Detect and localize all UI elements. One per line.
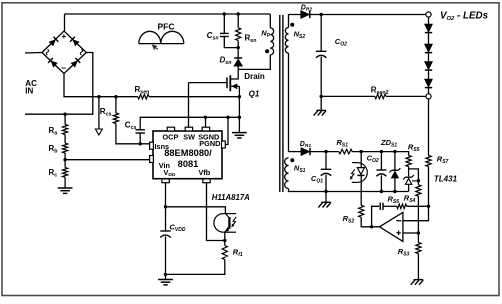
- transistor Q1 channel bar: [229, 75, 231, 91]
- wire RS6 right: [407, 205, 429, 207]
- resistor Rb: [63, 143, 68, 153]
- wire Ccs top to rail: [140, 117, 239, 130]
- node Rcs tap: [114, 95, 117, 98]
- transformer core: [279, 15, 281, 192]
- node source-ground: [238, 116, 241, 119]
- resistor RS6: [397, 204, 407, 209]
- capacitor Ccs: [135, 129, 145, 131]
- resistor Rsen2: [375, 94, 386, 99]
- capacitor CVDD: [160, 230, 171, 232]
- arrow down symbol: [95, 129, 102, 135]
- wire arrow stub: [98, 97, 100, 129]
- wire opto anode: [360, 152, 362, 168]
- resistor Ra: [63, 125, 68, 135]
- wire Rcs bottom: [116, 124, 149, 144]
- optocoupler U2 LED: [357, 168, 364, 175]
- wire VDD down: [165, 183, 167, 231]
- resistor RS4: [416, 185, 421, 196]
- bridge rectifier diamond: [42, 31, 86, 74]
- node Co1 bottom: [324, 190, 327, 193]
- optocoupler U2 emitter arrow: [225, 227, 230, 232]
- wire LED string: [428, 17, 430, 24]
- node opamp out: [370, 225, 373, 228]
- phase dot Ns2: [290, 23, 294, 27]
- node opto anode: [360, 150, 363, 153]
- wire AC line 1: [25, 52, 42, 55]
- wire Co2b top: [380, 152, 382, 170]
- svg-text:+: +: [61, 31, 66, 41]
- wire collector line: [166, 207, 226, 214]
- node noninv: [417, 231, 420, 234]
- node Co2b top: [380, 150, 383, 153]
- optocoupler U2 transistor envelope: [214, 214, 223, 233]
- wire Np top: [269, 14, 271, 28]
- IC pin PGND: [222, 141, 226, 148]
- wire Rcs top: [115, 97, 117, 113]
- wire bridge bottom drop: [64, 74, 138, 97]
- capacitor Co1: [321, 168, 332, 170]
- resistor Rsen: [138, 94, 149, 99]
- wire DR2 to terminal: [310, 14, 426, 16]
- resistor RS5: [406, 156, 411, 167]
- svg-text:PGND: PGND: [199, 139, 220, 148]
- diode DR1: [301, 148, 309, 155]
- phase dot Np: [265, 49, 269, 53]
- IC pin SW: [185, 127, 192, 131]
- IC U1 88EM8080 body: [153, 131, 222, 179]
- wire Co1 ground stub: [325, 192, 327, 203]
- resistor Rfl: [222, 246, 227, 260]
- wire Ns2 to Ns1: [288, 53, 290, 152]
- resistor RS7: [426, 156, 431, 167]
- bridge diode lower-right: [71, 60, 78, 67]
- wire Vin line: [65, 159, 149, 161]
- svg-text:Vfb: Vfb: [199, 168, 211, 177]
- op-amp plus sign: [396, 232, 400, 234]
- transistor Q1 gate lead: [189, 82, 228, 84]
- wire Rfl return: [166, 260, 225, 275]
- resistor RS1: [339, 149, 352, 154]
- IC pin SGND: [202, 127, 209, 131]
- wire TL431 anode: [408, 185, 410, 192]
- svg-text:H11A817A: H11A817A: [212, 193, 250, 202]
- wire Rsen2 right: [386, 95, 426, 97]
- optocoupler U2 emitter: [225, 228, 229, 232]
- wire drain: [230, 69, 238, 79]
- node AC2 junction: [63, 113, 66, 116]
- wire ZDs1 top: [394, 152, 396, 171]
- wire PGND riser: [225, 117, 228, 144]
- node snubber bottom junction: [237, 46, 240, 49]
- IC pin VDD: [162, 179, 169, 183]
- wire negative rail: [149, 96, 239, 98]
- optocoupler U2 light arrow: [351, 169, 355, 178]
- resistor Rsn: [236, 28, 241, 41]
- ground secondary top: [316, 109, 326, 111]
- TL431 ref connect: [412, 180, 419, 182]
- wire Rsen2 left: [321, 95, 375, 97]
- wire feedback left: [372, 206, 379, 227]
- op-amp U4: [380, 212, 403, 241]
- terminal VO2 plus: [426, 12, 431, 17]
- ground CVDD: [158, 279, 173, 281]
- wire Rfl top: [224, 241, 226, 246]
- wire SGND pin: [205, 117, 207, 127]
- wire Vfb down: [207, 183, 225, 241]
- capacitor CS feedback: [379, 203, 381, 210]
- inductor PFC: [139, 31, 184, 43]
- bridge AC squiggle right: [80, 50, 83, 55]
- wire Rsn bottom: [237, 41, 239, 58]
- wire Rb-Rc: [64, 153, 66, 168]
- wire VO2minus down: [428, 99, 430, 156]
- op-amp minus sign: [396, 220, 401, 222]
- capacitor Csn: [220, 32, 229, 34]
- wire RS5 to TL431: [408, 167, 410, 177]
- node source-rail: [238, 95, 241, 98]
- wire cap to RS6: [383, 205, 397, 207]
- phase dot Ns1: [290, 158, 294, 162]
- wire CVDD bottom: [165, 237, 167, 280]
- wire secondary top rail b: [352, 152, 408, 156]
- IC pin Vin: [150, 156, 154, 163]
- svg-text:IN: IN: [25, 87, 33, 96]
- IC pin OCP: [167, 127, 174, 131]
- IC pin Vfb: [203, 179, 210, 183]
- ground Co1: [321, 201, 331, 203]
- svg-text:SW: SW: [183, 132, 195, 141]
- svg-text:OCP: OCP: [163, 132, 179, 141]
- wire opto cathode: [360, 175, 362, 205]
- wire Co2 top: [320, 15, 322, 52]
- diode DR2: [301, 11, 309, 18]
- node ZDs1 bottom: [393, 190, 396, 193]
- svg-text:88EM8080/: 88EM8080/: [164, 148, 212, 158]
- optocoupler U2 collector lead: [225, 214, 229, 218]
- terminal VO2 minus: [426, 94, 431, 99]
- transistor Q1 source lead: [230, 85, 239, 87]
- node feedback junction: [427, 205, 430, 208]
- svg-text:8081: 8081: [178, 159, 199, 169]
- wire Np bottom: [238, 55, 270, 70]
- resistor Rcs: [113, 113, 118, 124]
- zener ZDS1: [392, 169, 399, 171]
- wire secondary bottom rail: [326, 191, 409, 193]
- wire Ccs bottom: [139, 133, 141, 144]
- node TL431 ref: [417, 179, 420, 182]
- optocoupler U2 LED envelope: [357, 163, 367, 183]
- node Co2 top: [320, 13, 323, 16]
- wire RS7 down: [403, 167, 429, 221]
- diode Dsn: [234, 59, 242, 66]
- node ZDs1 top: [393, 150, 396, 153]
- ground RS3: [414, 279, 424, 281]
- wire divider top: [64, 114, 66, 124]
- wire AC line 2: [25, 113, 65, 115]
- svg-text:TL431: TL431: [434, 175, 458, 184]
- IC pin Isns: [150, 142, 154, 149]
- svg-text:Drain: Drain: [244, 72, 265, 81]
- LED D1-D4 string: [425, 24, 432, 32]
- wire Ns2 top: [289, 15, 301, 28]
- wire RS3 ground stub: [417, 254, 419, 280]
- node SGND tap: [204, 116, 207, 119]
- node collector tap: [164, 205, 167, 208]
- node Ccs junction: [139, 142, 142, 145]
- capacitor Co2 output: [316, 50, 327, 52]
- transformer secondary Ns2: [285, 27, 288, 53]
- node ground return: [164, 273, 167, 276]
- wire Rc-ground: [64, 177, 66, 188]
- svg-text:PFC: PFC: [158, 22, 175, 32]
- node Vin tap: [63, 158, 66, 161]
- transistor Q1 source arrow: [231, 83, 237, 89]
- wire top rail: [65, 13, 271, 15]
- node Rsn rail: [237, 12, 240, 15]
- resistor Rc: [63, 168, 68, 178]
- wire RS2 bottom: [361, 217, 379, 227]
- transformer secondary Ns1: [285, 158, 289, 189]
- ground power stage: [232, 132, 247, 134]
- wire secondary top rail a: [310, 151, 339, 153]
- wire source down: [238, 86, 240, 117]
- wire Co2 bottom: [320, 57, 322, 111]
- bridge diode upper-left: [49, 39, 56, 46]
- wire Co1 top: [325, 152, 327, 170]
- svg-text:Q1: Q1: [249, 90, 260, 99]
- ground divider: [58, 187, 73, 189]
- wire source ground stub: [238, 117, 240, 132]
- node emitter junction: [223, 239, 226, 242]
- cursor artifact: [152, 44, 158, 50]
- bridge AC squiggle left: [46, 50, 49, 55]
- wire Csn bottom: [224, 37, 238, 48]
- wire RS4 down: [417, 196, 419, 242]
- node Co2b bottom: [380, 190, 383, 193]
- wire ZDs1 bottom: [394, 178, 396, 192]
- wire SW to gate: [188, 83, 190, 128]
- wire TL431 ref jog: [409, 169, 419, 185]
- TL431 U3: [405, 176, 411, 178]
- wire Ns1 bottom: [289, 189, 327, 192]
- transistor Q1 gate bar: [226, 77, 228, 88]
- transformer primary Np: [270, 28, 273, 55]
- wire Csn top: [223, 14, 225, 33]
- capacitor Co2 secondary: [376, 169, 386, 171]
- node PGND riser: [226, 116, 229, 119]
- node Csn rail: [223, 12, 226, 15]
- wire Dsn to drain node: [237, 66, 239, 69]
- node arrow tap: [97, 95, 100, 98]
- wire Ra-Rb: [64, 135, 66, 144]
- node Co1 top: [324, 150, 327, 153]
- wire opamp plus input: [403, 232, 419, 234]
- bridge diode lower-left: [51, 60, 58, 67]
- resistor RS2: [359, 205, 364, 217]
- node Co2 bottom: [320, 95, 323, 98]
- wire bridge plus riser: [64, 14, 66, 32]
- wire Ns1 top tap: [289, 151, 302, 153]
- svg-text:−: −: [61, 63, 66, 73]
- optocoupler U2 transistor bar: [228, 217, 230, 229]
- wire bridge right corner: [65, 53, 93, 115]
- wire Co1 bottom: [325, 175, 327, 192]
- optocoupler U2 light in: [232, 217, 236, 226]
- bridge diode upper-right: [72, 39, 79, 46]
- resistor RS3: [416, 243, 421, 254]
- wire Rsn top: [237, 14, 239, 28]
- wire Co2b bottom: [380, 175, 382, 191]
